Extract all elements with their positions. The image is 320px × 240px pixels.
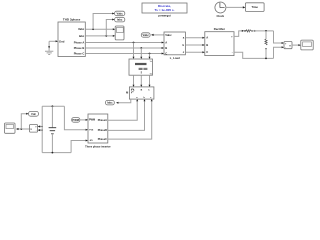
wire: PhaseB riser to measurement [108,99,146,130]
svg-text:Three phase inverter: Three phase inverter [85,144,111,148]
svg-text:A: A [165,40,167,44]
wire: VM1 to Scope3 [292,44,301,46]
svg-text:Ts = 1e-005 s.: Ts = 1e-005 s. [155,8,175,12]
from tag PWM [72,118,80,123]
wire: PhaseA riser to measurement [108,99,138,120]
wire: taps down to filter block [133,43,151,60]
block: Time (to workspace) [245,3,264,12]
voltage measurement VM2 [30,125,38,133]
svg-text:PhaseC: PhaseC [98,138,107,141]
svg-text:PhaseB: PhaseB [98,129,107,132]
svg-text:PWM: PWM [89,119,95,122]
wire: + rail to inverter [64,106,88,130]
block: three phase inverter [85,114,111,148]
block U1 THD 3phase [58,18,85,57]
wire: VM2 to Scope2 [16,128,30,130]
svg-text:Phase A: Phase A [74,40,85,44]
block: three-phase filter [129,59,153,75]
wire: branch up to goto Vabc [93,13,115,30]
svg-text:Vdc: Vdc [31,112,36,116]
svg-text:THD 3phase: THD 3phase [63,18,81,22]
wire: measurement output to goto [116,99,131,104]
wire: Phase A bus [85,42,164,44]
svg-text:C: C [165,51,167,55]
svg-text:B: B [165,46,167,50]
svg-text:Time: Time [251,5,258,9]
svg-text:Vabc: Vabc [117,11,124,15]
svg-text:A: A [206,36,208,40]
goto tag [Iabc] [115,17,125,22]
wire: sensor to right rail [252,30,273,32]
wire: branch up to goto Iabc [106,19,114,36]
powergui block [142,3,187,18]
svg-text:PWM: PWM [72,118,79,122]
svg-text:Phase C: Phase C [74,51,85,55]
voltage measurement VM1 [284,42,292,50]
wire: clock to Time [226,6,246,8]
capacitor C dc-link [49,105,57,153]
svg-text:Rectifier: Rectifier [214,27,226,31]
block: Rectifier [205,27,234,55]
wire: + rail to VM1 [274,31,285,44]
wire: Phase C bus [85,53,164,55]
wires: VM2 inputs from DC rail [38,125,43,131]
svg-text:Iabc: Iabc [117,18,123,22]
ground [45,41,53,54]
goto tag [Vabc] mid [141,33,150,37]
goto tag [Iabc] lower [106,100,115,105]
wire: goto tag to L_Load Vabc [151,34,164,36]
svg-text:Iabc: Iabc [79,34,85,38]
svg-text:Clock: Clock [216,14,224,18]
wires: filter to measurement [133,75,151,87]
wire: rectifier + output [234,30,246,37]
svg-text:B: B [206,43,208,47]
svg-text:-vs: -vs [89,139,93,142]
svg-text:PhaseA: PhaseA [98,119,107,122]
block: V-I measurement M [126,87,154,99]
wire: Phase B bus [85,47,164,49]
current sensor (series element) [246,30,253,32]
svg-text:L_Load: L_Load [170,56,180,60]
clock [215,2,226,18]
wire: - rail to VM1 [274,46,285,58]
svg-text:Vabc: Vabc [78,27,85,31]
scope Scope2 (Vdc scope) [5,123,16,133]
svg-text:C: C [206,50,208,54]
wire: Vabc output to scope [85,28,115,30]
DC link rails [42,106,71,152]
wires: L_Load to Rectifier [185,37,204,54]
scope Scope1 [115,26,124,40]
svg-text:powergui: powergui [158,14,171,18]
svg-text:Vabc: Vabc [165,33,172,37]
svg-text:+vs: +vs [89,129,94,132]
wire: PhaseC riser to measurement [108,99,153,139]
wire: - rail to inverter [71,140,88,153]
wire: Iabc output to scope [85,35,115,37]
wire: PWM to inverter [80,119,88,121]
goto tag [Vabc] [115,11,125,16]
wire: rectifier - output bottom rail [234,52,274,58]
wire: branch up to goto Vdc [21,113,28,129]
svg-text:Phase B: Phase B [74,46,85,50]
svg-text:Vabc: Vabc [143,33,150,37]
resistor R load branch [265,30,267,59]
goto tag [Vdc] [29,111,39,116]
block: L_Load [164,32,185,60]
scope Scope3 [301,40,313,50]
wire: ground to THD Gnd input [49,40,58,42]
svg-text:Gnd: Gnd [59,39,65,43]
svg-text:Iabc: Iabc [107,101,113,105]
svg-text:-: - [232,51,233,54]
